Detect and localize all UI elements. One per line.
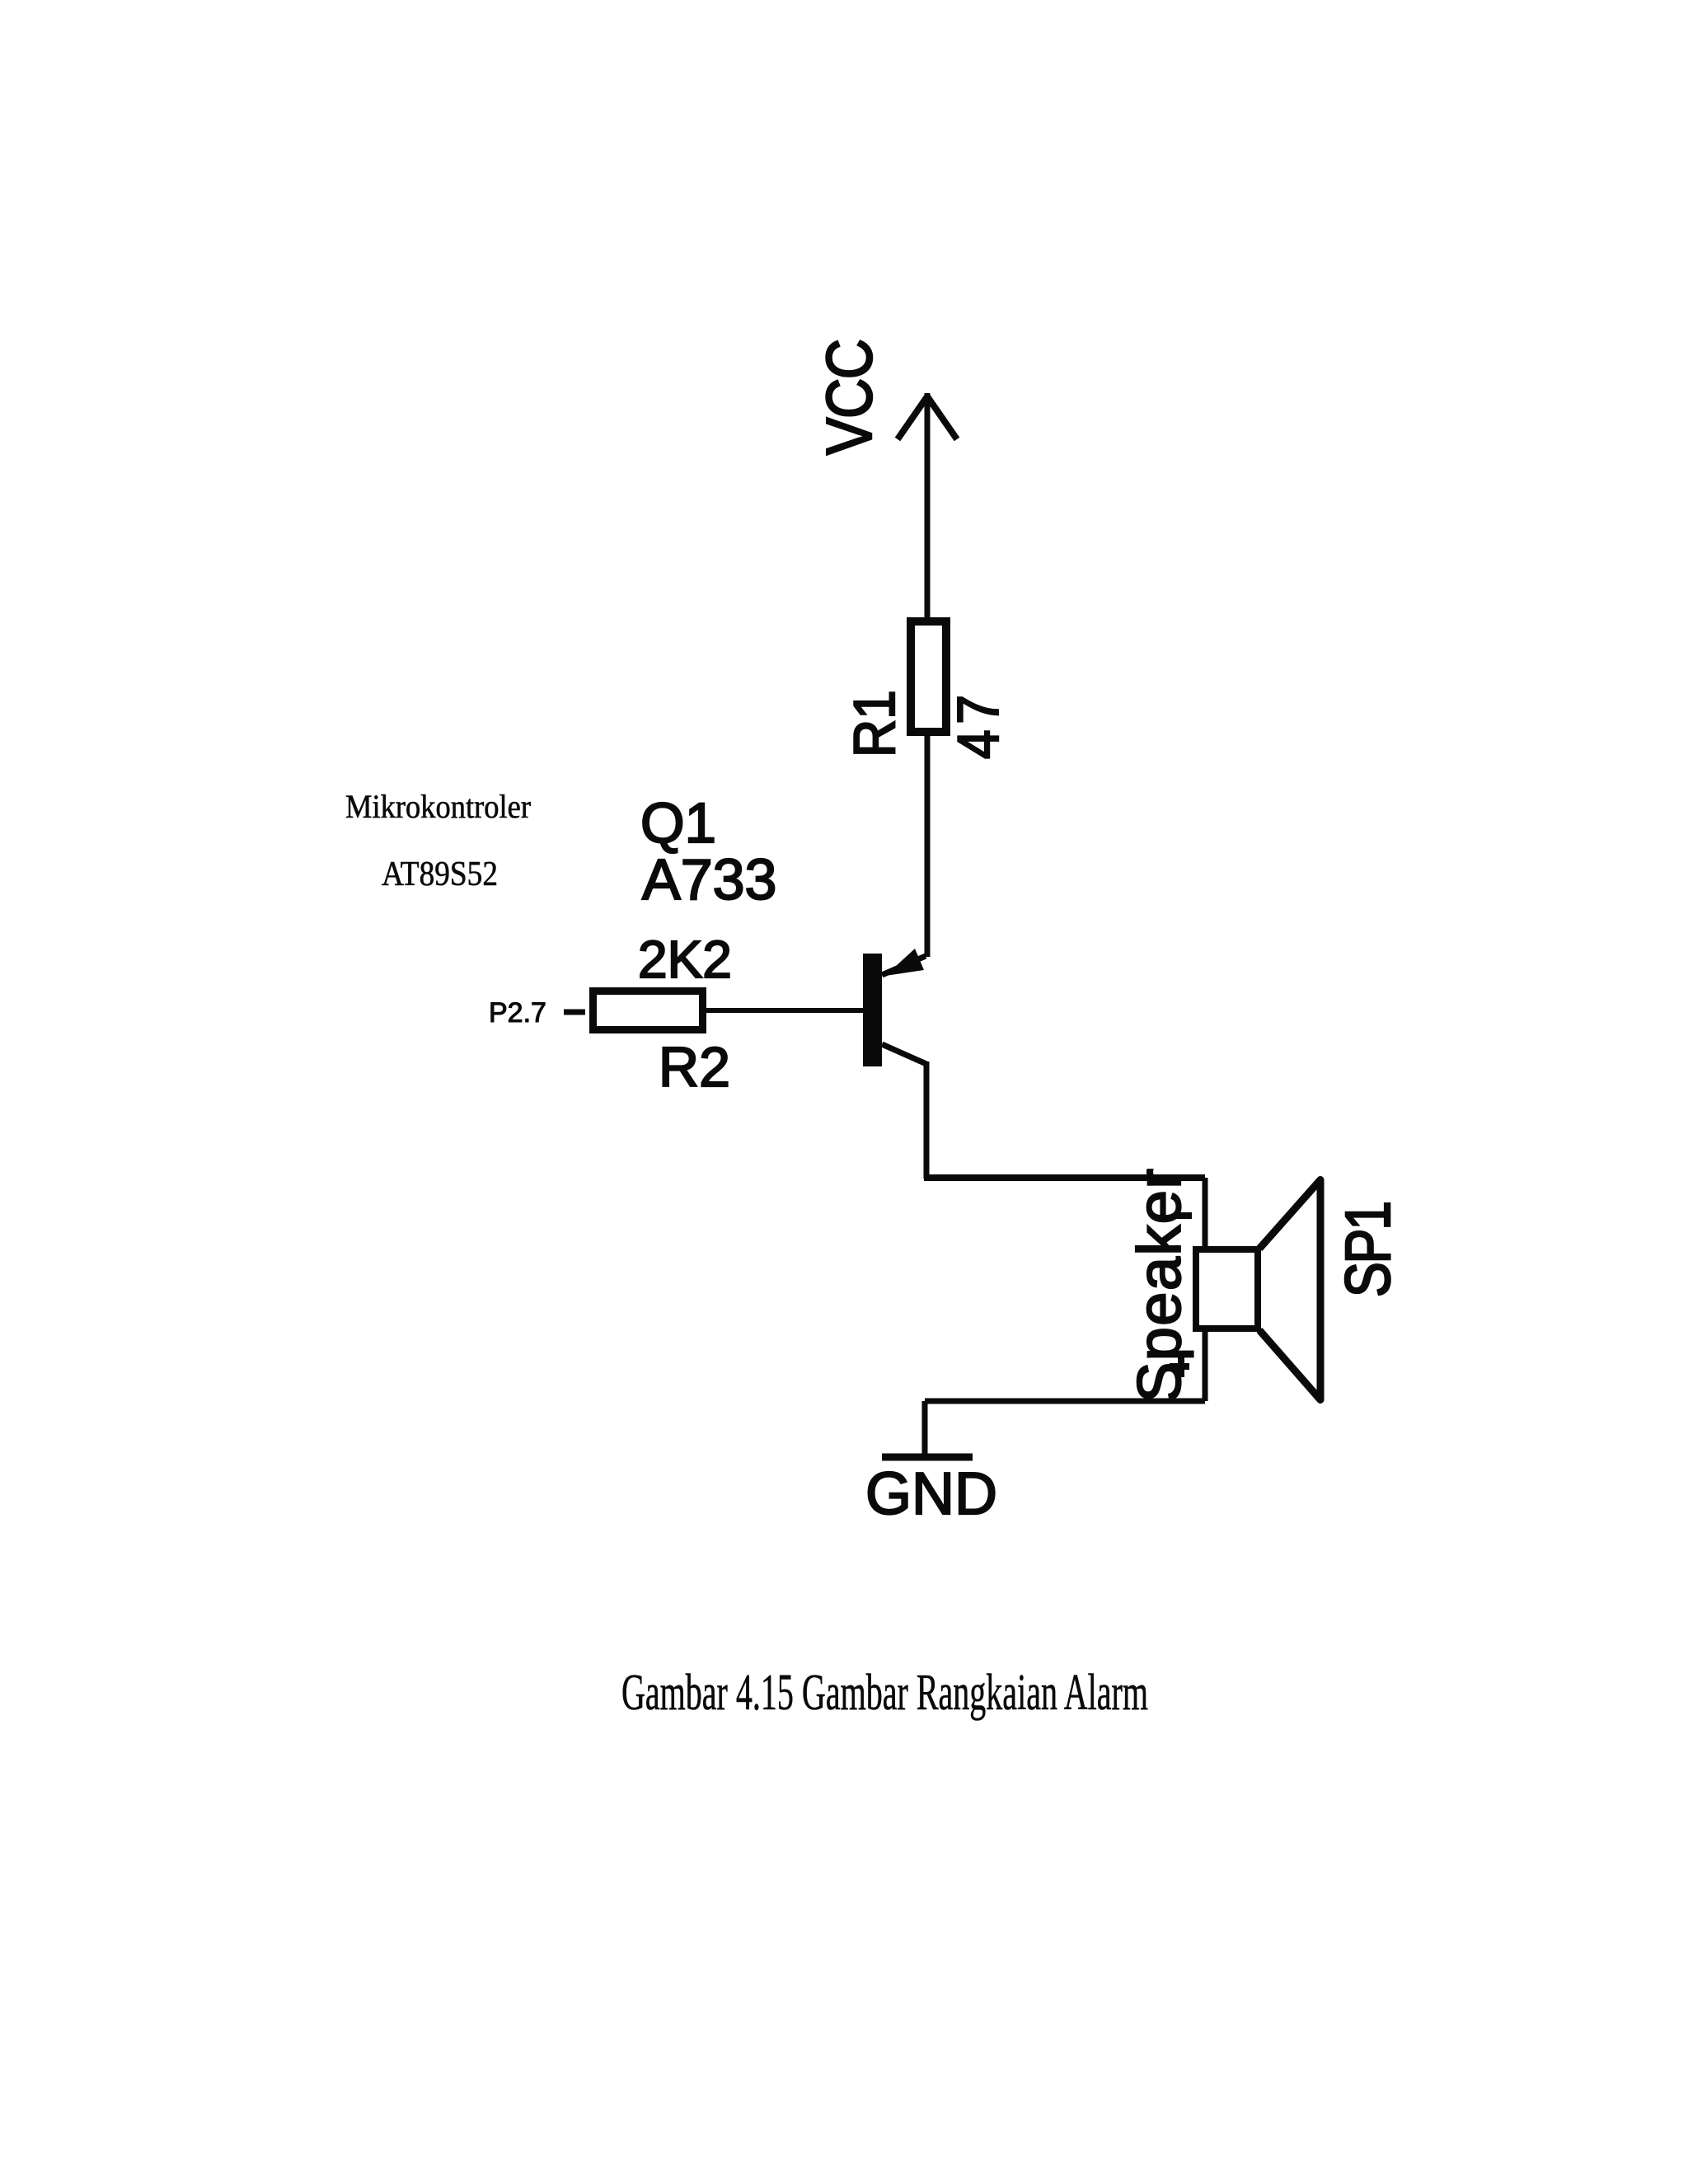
svg-text:A733: A733 xyxy=(642,847,776,912)
svg-text:Mikrokontroler: Mikrokontroler xyxy=(345,788,531,825)
svg-text:R1: R1 xyxy=(842,690,907,757)
svg-text:Speaker: Speaker xyxy=(1125,1169,1193,1403)
svg-text:R2: R2 xyxy=(659,1036,730,1099)
svg-text:SP1: SP1 xyxy=(1332,1201,1403,1297)
svg-text:P2.7: P2.7 xyxy=(489,997,546,1029)
svg-text:2K2: 2K2 xyxy=(638,930,732,989)
svg-text:VCC: VCC xyxy=(814,339,886,455)
svg-text:Q1: Q1 xyxy=(640,791,716,855)
svg-text:GND: GND xyxy=(865,1461,997,1527)
svg-text:Gambar 4.15 Gambar Rangkaian A: Gambar 4.15 Gambar Rangkaian Alarm xyxy=(621,1665,1148,1721)
svg-text:47: 47 xyxy=(946,695,1010,759)
svg-text:AT89S52: AT89S52 xyxy=(382,855,498,893)
